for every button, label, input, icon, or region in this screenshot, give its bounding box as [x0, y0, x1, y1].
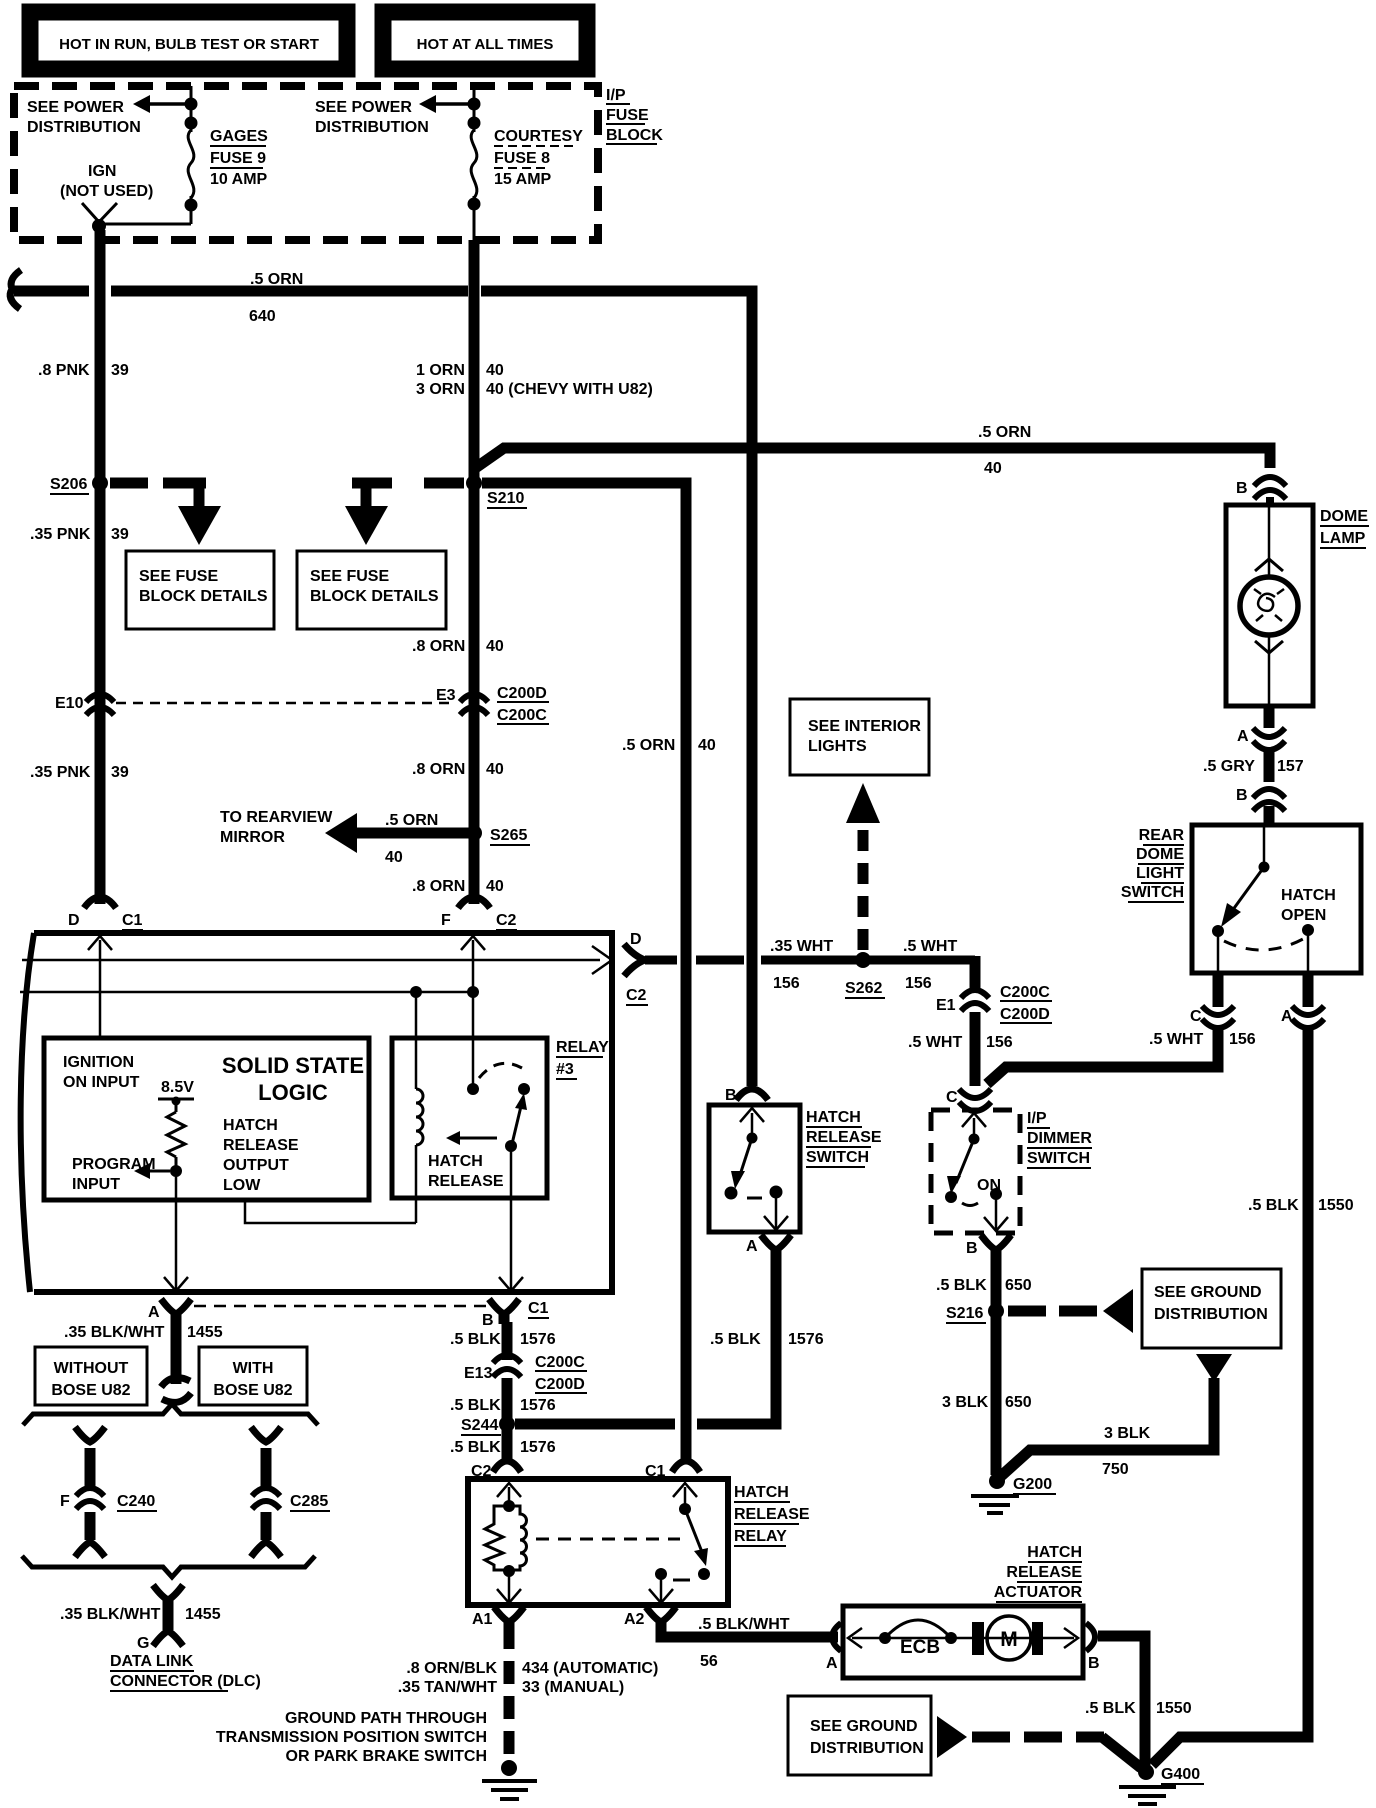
splice S210: [466, 475, 482, 491]
svg-text:1550: 1550: [1318, 1197, 1354, 1214]
svg-text:F: F: [60, 1493, 70, 1510]
svg-text:FUSE: FUSE: [606, 107, 649, 124]
branch wire to C285: [251, 1427, 281, 1442]
rear dome light switch box: [1192, 825, 1361, 973]
connector A1: [494, 1607, 524, 1622]
relay #3 box: [392, 1038, 547, 1198]
splice S216: [988, 1303, 1004, 1319]
svg-text:INPUT: INPUT: [72, 1176, 120, 1193]
svg-text:C: C: [1190, 1008, 1202, 1025]
label .35 BLK/WHT 1455: [64, 1324, 223, 1341]
svg-text:RELEASE: RELEASE: [428, 1173, 504, 1190]
svg-text:DIMMER: DIMMER: [1027, 1130, 1092, 1147]
splice S244: [499, 1416, 515, 1432]
svg-text:1455: 1455: [185, 1606, 221, 1623]
branch wire below C285: [261, 1512, 272, 1540]
label 1 ORN 40 / 3 ORN 40 (CHEVY WITH U82): [416, 362, 653, 398]
svg-text:33 (MANUAL): 33 (MANUAL): [522, 1679, 624, 1696]
svg-text:40: 40: [984, 460, 1002, 477]
svg-text:D: D: [68, 912, 80, 929]
connector C2 (hatch release relay): [493, 1461, 521, 1472]
svg-text:WITHOUT: WITHOUT: [54, 1360, 129, 1377]
wire rear dome switch C to dimmer switch: [987, 1030, 1218, 1084]
wire .8 PNK 39 (left main vertical): [95, 230, 106, 904]
svg-text:SWITCH: SWITCH: [806, 1149, 869, 1166]
svg-text:A: A: [148, 1304, 160, 1321]
branch wire to C240: [75, 1427, 105, 1442]
svg-text:C240: C240: [117, 1493, 155, 1510]
I/P fuse block dashed boundary: [14, 86, 598, 240]
svg-text:IGN: IGN: [88, 163, 116, 180]
connector B (rear dome light switch): [1253, 789, 1285, 811]
svg-text:.5 BLK: .5 BLK: [450, 1331, 501, 1348]
wire rear dome switch A to G400 .5 BLK 1550: [1152, 1030, 1308, 1765]
svg-text:3 BLK: 3 BLK: [1104, 1425, 1151, 1442]
relay coil input arrow: [508, 1487, 511, 1506]
svg-text:SEE INTERIOR: SEE INTERIOR: [808, 718, 921, 735]
svg-text:ECB: ECB: [900, 1637, 940, 1658]
dashed tap ground distribution to G400: [937, 1716, 967, 1758]
module output connector B C1: [489, 1299, 519, 1314]
svg-text:C1: C1: [122, 912, 143, 929]
svg-text:1550: 1550: [1156, 1700, 1192, 1717]
wire .5 ORN 640 horizontal: [14, 286, 758, 297]
svg-text:40: 40: [385, 849, 403, 866]
label 3 BLK 650: [942, 1394, 1032, 1411]
svg-text:.5 ORN: .5 ORN: [250, 271, 303, 288]
wire .5 GRY 157: [1264, 752, 1275, 782]
node under IGN: [92, 219, 106, 233]
svg-text:OUTPUT: OUTPUT: [223, 1157, 289, 1174]
svg-text:E1: E1: [936, 997, 956, 1014]
svg-text:C200D: C200D: [497, 685, 547, 702]
svg-text:G200: G200: [1013, 1476, 1052, 1493]
svg-text:10 AMP: 10 AMP: [210, 171, 268, 188]
node program input: [170, 1165, 182, 1177]
relay #3 dashed travel arc: [479, 1063, 522, 1078]
label .8 ORN 40 (below E3): [412, 761, 504, 778]
connector C240: [76, 1488, 104, 1509]
svg-text:OR PARK BRAKE SWITCH: OR PARK BRAKE SWITCH: [286, 1748, 487, 1765]
svg-text:3 ORN: 3 ORN: [416, 381, 465, 398]
ground (transmission position switch): [501, 1760, 517, 1776]
svg-text:DISTRIBUTION: DISTRIBUTION: [1154, 1306, 1268, 1323]
svg-text:C200D: C200D: [1000, 1006, 1050, 1023]
label REAR DOME LIGHT SWITCH: [1121, 827, 1185, 901]
svg-text:1576: 1576: [520, 1331, 556, 1348]
svg-text:ACTUATOR: ACTUATOR: [994, 1584, 1083, 1601]
svg-text:1576: 1576: [520, 1439, 556, 1456]
svg-text:DOME: DOME: [1136, 846, 1184, 863]
svg-text:.5 BLK: .5 BLK: [450, 1397, 501, 1414]
svg-text:RELEASE: RELEASE: [806, 1129, 882, 1146]
svg-text:SEE POWER: SEE POWER: [315, 99, 412, 116]
relay #3 fixed contact: [518, 1083, 530, 1095]
svg-text:LOGIC: LOGIC: [258, 1080, 328, 1105]
svg-text:LAMP: LAMP: [1320, 530, 1366, 547]
svg-text:RELEASE: RELEASE: [1006, 1564, 1082, 1581]
svg-text:.5 WHT: .5 WHT: [1149, 1031, 1203, 1048]
connector A2: [646, 1607, 676, 1622]
svg-text:156: 156: [1229, 1031, 1256, 1048]
svg-text:1576: 1576: [520, 1397, 556, 1414]
node relay common feed: [467, 986, 479, 998]
svg-text:WITH: WITH: [233, 1360, 274, 1377]
rear dome switch contacts: [1263, 825, 1266, 867]
connector B (hatch release switch): [736, 1089, 768, 1100]
box SEE GROUND DISTRIBUTION (lower): [788, 1696, 931, 1775]
label .5 ORN 40 (relay feed wire): [622, 737, 716, 754]
svg-text:156: 156: [773, 975, 800, 992]
svg-text:.5 BLK: .5 BLK: [936, 1277, 987, 1294]
connector E1 / C200C C200D: [961, 990, 989, 1011]
svg-text:LOW: LOW: [223, 1177, 261, 1194]
connector E13 / C200C C200D: [493, 1355, 521, 1377]
svg-text:.5 WHT: .5 WHT: [908, 1034, 962, 1051]
module output connector A: [161, 1299, 191, 1314]
svg-text:C: C: [946, 1089, 958, 1106]
svg-text:.5 BLK: .5 BLK: [1248, 1197, 1299, 1214]
arrow to power distribution (right): [419, 95, 474, 113]
svg-text:.35 BLK/WHT: .35 BLK/WHT: [64, 1324, 165, 1341]
svg-text:LIGHTS: LIGHTS: [808, 738, 867, 755]
power feed box HOT IN RUN, BULB TEST OR START: [30, 12, 347, 69]
label .35 PNK 39 (below E10): [30, 764, 129, 781]
svg-text:S262: S262: [845, 980, 882, 997]
svg-text:C2: C2: [626, 987, 647, 1004]
svg-text:640: 640: [249, 308, 276, 325]
svg-text:RELEASE: RELEASE: [734, 1506, 810, 1523]
svg-text:HOT IN RUN, BULB TEST OR START: HOT IN RUN, BULB TEST OR START: [59, 36, 319, 53]
svg-text:A1: A1: [472, 1611, 493, 1628]
relay #3 output line to C1: [510, 1146, 513, 1289]
program input line down to A: [175, 1171, 178, 1289]
svg-text:3 BLK: 3 BLK: [942, 1394, 989, 1411]
connector E3 / C200D C200C: [460, 694, 488, 715]
wire S210 to relay#3 feed (down at x=686): [482, 478, 692, 489]
inline connector on 1455 wire: [161, 1378, 191, 1403]
hatch release actuator box: [843, 1606, 1083, 1678]
connector A (actuator): [832, 1623, 841, 1651]
svg-text:RELAY: RELAY: [734, 1528, 787, 1545]
svg-text:GROUND PATH THROUGH: GROUND PATH THROUGH: [285, 1710, 487, 1727]
relay common line from C2: [472, 940, 475, 1089]
label HATCH RELEASE ACTUATOR: [994, 1544, 1083, 1601]
label SEE POWER DISTRIBUTION (left): [27, 99, 141, 136]
svg-text:C200C: C200C: [535, 1354, 585, 1371]
relay #3 actuate arrow: [460, 1137, 497, 1140]
dashed actuation link: [536, 1538, 680, 1541]
svg-text:B: B: [966, 1240, 978, 1257]
DLC connector end: [153, 1631, 183, 1646]
connector A (hatch release switch): [761, 1235, 791, 1250]
box WITHOUT BOSE U82: [35, 1347, 147, 1405]
svg-text:IGNITION: IGNITION: [63, 1054, 134, 1071]
hatch release relay box: [468, 1479, 728, 1605]
ignition input line from C1: [99, 940, 102, 1038]
svg-text:SEE POWER: SEE POWER: [27, 99, 124, 116]
svg-text:.5 WHT: .5 WHT: [903, 938, 957, 955]
svg-text:COURTESY: COURTESY: [494, 128, 583, 145]
dashed arrow to SEE INTERIOR LIGHTS: [858, 826, 869, 950]
svg-text:40: 40: [486, 362, 504, 379]
arrow program input: [150, 1170, 170, 1173]
ground G400: [1138, 1764, 1154, 1780]
svg-text:HATCH: HATCH: [428, 1153, 483, 1170]
connector B (I/P dimmer switch): [981, 1235, 1011, 1250]
label .5 BLK 1576 (below C1): [450, 1331, 556, 1348]
label .8 ORN 40 (above C2): [412, 878, 504, 895]
label HATCH RELEASE RELAY: [734, 1484, 810, 1545]
svg-text:HATCH: HATCH: [734, 1484, 789, 1501]
svg-text:750: 750: [1102, 1461, 1129, 1478]
svg-text:D: D: [630, 931, 642, 948]
wire A1 ground path (dashed): [504, 1626, 515, 1758]
label .5 BLK 1576 (switch to S244): [710, 1331, 824, 1348]
wire .35 BLK/WHT 1455 down from A: [171, 1320, 182, 1384]
label .8 PNK 39: [38, 362, 129, 379]
wire .5 ORN 40 down to hatch release switch B: [747, 291, 758, 1086]
svg-text:B: B: [1236, 787, 1248, 804]
svg-text:1455: 1455: [187, 1324, 223, 1341]
label .35 PNK 39: [30, 526, 129, 543]
svg-text:E3: E3: [436, 687, 456, 704]
svg-text:I/P: I/P: [606, 87, 626, 104]
arrow to power distribution (left): [133, 95, 191, 113]
svg-text:C200C: C200C: [1000, 984, 1050, 1001]
actuator internals: ECB and motor: [852, 1637, 1074, 1640]
svg-text:1576: 1576: [788, 1331, 824, 1348]
wire actuator B to G400 .5 BLK 1550: [1098, 1636, 1145, 1766]
svg-text:.5 BLK: .5 BLK: [710, 1331, 761, 1348]
svg-text:F: F: [441, 912, 451, 929]
svg-text:S216: S216: [946, 1305, 983, 1322]
label HATCH RELEASE SWITCH: [806, 1109, 882, 1166]
I/P fuse block label: [606, 87, 663, 144]
svg-text:.8 PNK: .8 PNK: [38, 362, 90, 379]
I/P dimmer switch dashed box: [931, 1110, 1020, 1233]
svg-text:SEE FUSE: SEE FUSE: [139, 568, 218, 585]
label HATCH RELEASE (relay #3): [428, 1153, 504, 1190]
svg-text:E10: E10: [55, 695, 84, 712]
splice S265 with arrow TO REARVIEW MIRROR: [357, 828, 468, 839]
svg-text:(NOT USED): (NOT USED): [60, 183, 153, 200]
label SEE POWER DISTRIBUTION (right): [315, 99, 429, 136]
svg-text:S265: S265: [490, 827, 527, 844]
svg-text:SEE GROUND: SEE GROUND: [1154, 1284, 1262, 1301]
svg-text:40: 40: [698, 737, 716, 754]
svg-text:ON INPUT: ON INPUT: [63, 1074, 140, 1091]
svg-text:BOSE U82: BOSE U82: [51, 1382, 130, 1399]
svg-text:650: 650: [1005, 1277, 1032, 1294]
svg-text:A: A: [1237, 728, 1249, 745]
dimmer switch contacts: [973, 1118, 976, 1139]
svg-text:.8 ORN: .8 ORN: [412, 761, 465, 778]
svg-text:C200D: C200D: [535, 1376, 585, 1393]
svg-text:G: G: [137, 1635, 149, 1652]
connector E10: [86, 694, 114, 715]
svg-text:39: 39: [111, 526, 129, 543]
label .5 WHT 156 (switch C): [1149, 1031, 1256, 1048]
svg-text:A: A: [826, 1655, 838, 1672]
svg-text:.5 ORN: .5 ORN: [622, 737, 675, 754]
splice S262: [855, 952, 871, 968]
svg-text:HATCH: HATCH: [1281, 887, 1336, 904]
svg-text:LIGHT: LIGHT: [1136, 865, 1184, 882]
svg-text:SEE GROUND: SEE GROUND: [810, 1718, 918, 1735]
svg-text:39: 39: [111, 764, 129, 781]
left hook end of .5 ORN wire: [10, 270, 21, 309]
wire fuse9 to IGN node: [99, 223, 191, 226]
svg-text:.8 ORN: .8 ORN: [412, 878, 465, 895]
svg-text:.5 GRY: .5 GRY: [1203, 758, 1255, 775]
splice S206: [92, 475, 108, 491]
svg-text:B: B: [1236, 480, 1248, 497]
label .5 ORN 640: [249, 271, 303, 325]
8.5V pullup resistor: [158, 1099, 194, 1171]
svg-text:DATA LINK: DATA LINK: [110, 1653, 194, 1670]
svg-text:RELAY: RELAY: [556, 1039, 609, 1056]
svg-text:BOSE U82: BOSE U82: [213, 1382, 292, 1399]
svg-text:40 (CHEVY WITH U82): 40 (CHEVY WITH U82): [486, 381, 653, 398]
IGN stub fork: [82, 203, 117, 222]
svg-text:.8 ORN/BLK: .8 ORN/BLK: [406, 1660, 497, 1677]
svg-text:FUSE 9: FUSE 9: [210, 150, 266, 167]
svg-text:.5 ORN: .5 ORN: [385, 812, 438, 829]
svg-text:GAGES: GAGES: [210, 128, 268, 145]
ground G200: [989, 1473, 1005, 1489]
svg-text:SWITCH: SWITCH: [1027, 1150, 1090, 1167]
svg-text:SOLID STATE: SOLID STATE: [222, 1053, 364, 1078]
wire S244 to hatch release switch A: [515, 1252, 782, 1430]
dashed connector line A to C1: [194, 1305, 486, 1308]
svg-text:40: 40: [486, 878, 504, 895]
svg-text:CONNECTOR (DLC): CONNECTOR (DLC): [110, 1673, 261, 1690]
svg-text:RELEASE: RELEASE: [223, 1137, 299, 1154]
dashed tap S216 to ground distribution: [1008, 1306, 1097, 1317]
connector A (rear dome light switch): [1303, 973, 1314, 1007]
relay #3 contact pivot: [467, 1083, 479, 1095]
svg-text:40: 40: [486, 761, 504, 778]
svg-text:M: M: [1000, 1628, 1018, 1651]
svg-text:B: B: [482, 1312, 494, 1329]
svg-text:C2: C2: [496, 912, 517, 929]
module bus line to D/C2 output: [22, 959, 600, 962]
svg-text:BLOCK DETAILS: BLOCK DETAILS: [310, 588, 439, 605]
connector B (actuator): [1086, 1623, 1095, 1651]
svg-text:39: 39: [111, 362, 129, 379]
svg-text:SEE FUSE: SEE FUSE: [310, 568, 389, 585]
svg-text:S244: S244: [461, 1417, 498, 1434]
module output D C2 to S262: [624, 944, 654, 976]
svg-text:FUSE 8: FUSE 8: [494, 150, 550, 167]
body control module outline (torn left edge): [21, 933, 612, 1292]
svg-text:.5 BLK: .5 BLK: [450, 1439, 501, 1456]
svg-text:.5 ORN: .5 ORN: [978, 424, 1031, 441]
svg-text:15 AMP: 15 AMP: [494, 171, 552, 188]
fuse GAGES FUSE 9 10 AMP: [185, 86, 198, 224]
svg-text:HATCH: HATCH: [1027, 1544, 1082, 1561]
hatch release switch box: [709, 1105, 800, 1232]
fuse COURTESY FUSE 8 15 AMP: [468, 86, 481, 240]
label .8 ORN 40 (above E3): [412, 638, 504, 655]
svg-text:.35 TAN/WHT: .35 TAN/WHT: [398, 1679, 497, 1696]
svg-text:MIRROR: MIRROR: [220, 829, 285, 846]
svg-text:OPEN: OPEN: [1281, 907, 1326, 924]
harness merge brace (bottom): [22, 1556, 315, 1577]
svg-text:DISTRIBUTION: DISTRIBUTION: [810, 1740, 924, 1757]
relay coil output arrow to A1: [508, 1571, 511, 1601]
svg-text:DISTRIBUTION: DISTRIBUTION: [27, 119, 141, 136]
wire branch S210 to dome lamp .5 ORN 40: [474, 448, 1270, 469]
svg-text:157: 157: [1277, 758, 1304, 775]
wire E1 to dimmer switch C .5 WHT 156: [970, 1012, 981, 1086]
relay #3 movable arm: [512, 1102, 522, 1144]
svg-text:HATCH: HATCH: [223, 1117, 278, 1134]
label IGN (NOT USED): [60, 163, 153, 200]
connector C (rear dome light switch): [1213, 973, 1224, 1007]
svg-text:.5 BLK: .5 BLK: [1085, 1700, 1136, 1717]
svg-text:G400: G400: [1161, 1766, 1200, 1783]
relay fixed contact: [655, 1568, 667, 1580]
svg-text:S206: S206: [50, 476, 87, 493]
svg-text:E13: E13: [464, 1365, 493, 1382]
svg-text:#3: #3: [556, 1061, 574, 1078]
svg-text:REAR: REAR: [1139, 827, 1185, 844]
svg-text:.8 ORN: .8 ORN: [412, 638, 465, 655]
svg-text:B: B: [1088, 1655, 1100, 1672]
connector A (dome lamp): [1264, 706, 1275, 728]
hatch release switch contacts: [751, 1113, 754, 1138]
wire A2 to actuator .5 BLK/WHT 56: [661, 1626, 838, 1637]
svg-text:.5 BLK/WHT: .5 BLK/WHT: [698, 1616, 790, 1633]
box SEE FUSE BLOCK DETAILS (right): [297, 551, 446, 629]
svg-text:I/P: I/P: [1027, 1110, 1047, 1127]
svg-text:HOT AT ALL TIMES: HOT AT ALL TIMES: [417, 36, 554, 53]
svg-text:650: 650: [1005, 1394, 1032, 1411]
svg-text:TO REARVIEW: TO REARVIEW: [220, 809, 333, 826]
svg-text:C1: C1: [528, 1300, 549, 1317]
wire 1 ORN 40 (right fuse vertical): [469, 240, 480, 904]
svg-text:HATCH: HATCH: [806, 1109, 861, 1126]
svg-text:TRANSMISSION POSITION SWITCH: TRANSMISSION POSITION SWITCH: [216, 1729, 487, 1746]
connector C285: [252, 1488, 280, 1509]
connector F C2 into module: [458, 897, 490, 908]
power feed box HOT AT ALL TIMES: [383, 12, 587, 69]
relay #3 coil: [245, 992, 423, 1223]
svg-text:A: A: [746, 1238, 758, 1255]
wire .5 BLK 1576 E13 to S244: [502, 1378, 513, 1460]
svg-text:BLOCK DETAILS: BLOCK DETAILS: [139, 588, 268, 605]
DLC pigtail fork: [153, 1585, 183, 1600]
wire .35 WHT 156 module to S262: [645, 956, 975, 965]
box SEE GROUND DISTRIBUTION (upper): [1142, 1269, 1281, 1348]
box WITH BOSE U82: [199, 1347, 307, 1405]
wire S262 to E1: [970, 956, 981, 992]
relay coil and resistor: [485, 1506, 527, 1570]
module bus line to relay coil: [20, 991, 473, 994]
svg-text:156: 156: [905, 975, 932, 992]
node coil feed: [410, 986, 422, 998]
dashed connector line E10 to E3: [116, 702, 455, 705]
svg-text:434 (AUTOMATIC): 434 (AUTOMATIC): [522, 1660, 658, 1677]
label I/P DIMMER SWITCH: [1027, 1110, 1092, 1167]
svg-text:DOME: DOME: [1320, 508, 1368, 525]
connector C1 (hatch release relay): [672, 1461, 700, 1472]
relay switch arm: [685, 1509, 702, 1552]
dome lamp bulb: [1268, 505, 1271, 578]
svg-text:.35 PNK: .35 PNK: [30, 764, 91, 781]
